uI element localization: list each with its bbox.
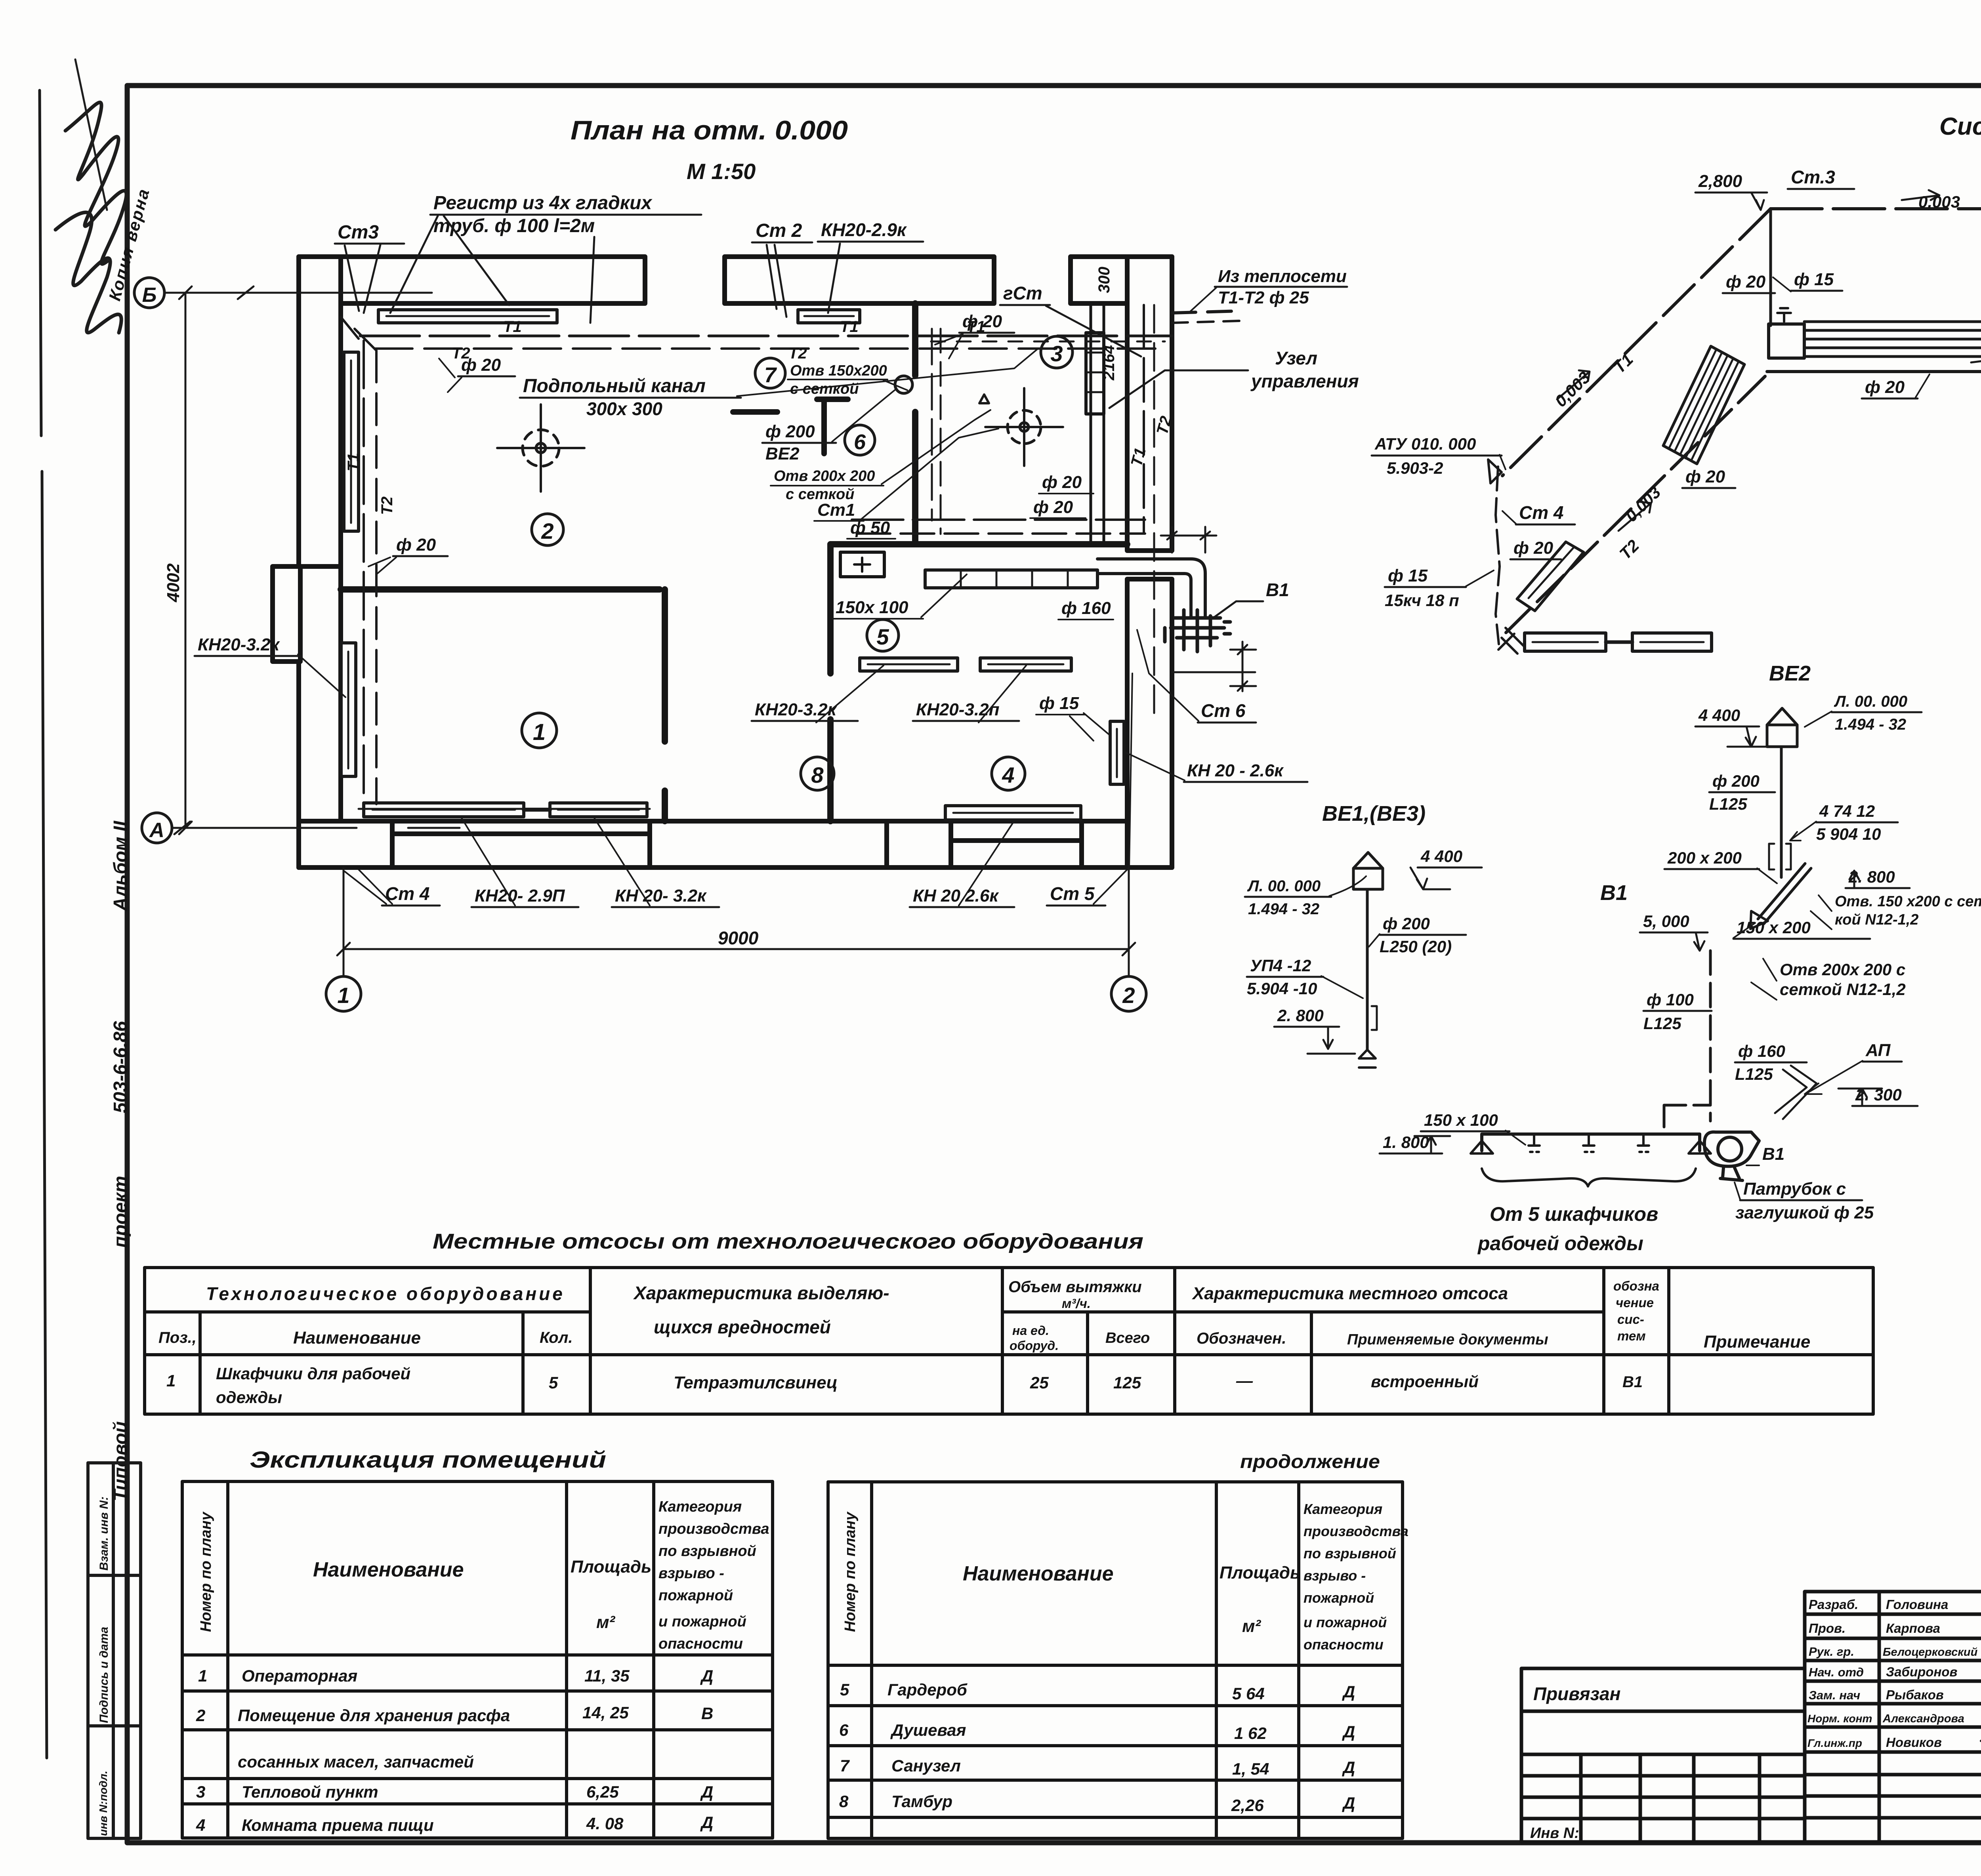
svg-text:Комната приема пищи: Комната приема пищи [242,1816,434,1834]
svg-text:Д: Д [700,1783,713,1801]
exterior wall left band [273,257,341,867]
svg-text:Д: Д [1342,1794,1355,1812]
svg-text:Площадь: Площадь [1220,1563,1300,1582]
svg-text:4 400: 4 400 [1420,847,1462,866]
radiator left wall upper [344,352,359,531]
svg-text:5 904 10: 5 904 10 [1816,825,1881,843]
svg-text:Наименование: Наименование [293,1328,421,1348]
VE2 duct riser [1780,747,1783,877]
svg-text:Тепловой пункт: Тепловой пункт [242,1783,378,1801]
svg-text:—: — [1236,1371,1253,1390]
radiator room5 b [980,658,1071,671]
svg-text:6: 6 [854,430,866,454]
radiator room3 vertical [1110,721,1124,784]
svg-text:ВЕ2: ВЕ2 [765,444,800,463]
pipe T2 main horizontal [375,347,1161,350]
svg-text:и пожарной: и пожарной [1303,1614,1387,1630]
svg-text:2: 2 [196,1706,205,1725]
svg-text:Новиков: Новиков [1886,1735,1942,1750]
svg-text:опасности: опасности [658,1636,743,1652]
horizontal dim line 9000 [337,943,1135,955]
svg-text:тем: тем [1617,1329,1646,1343]
svg-text:Местные отсосы от технологи: Местные отсосы от технологического обору… [433,1230,1143,1253]
svg-text:Л. 00. 000: Л. 00. 000 [1247,877,1321,895]
svg-text:ф 15: ф 15 [1388,566,1428,585]
V1 brace under duct [1482,1169,1696,1186]
svg-text:Наименование: Наименование [963,1562,1114,1585]
svg-text:Гл.инж.пр: Гл.инж.пр [1807,1737,1862,1749]
slope arrow 0.003 T2 [1971,353,1981,362]
flag symbol ATU [1488,459,1502,483]
svg-text:1.494 - 32: 1.494 - 32 [1835,716,1906,733]
svg-text:1: 1 [166,1371,176,1390]
svg-text:Наименование: Наименование [313,1558,464,1581]
wc partition stub [733,409,777,415]
svg-text:Экспликация помещений: Экспликация помещений [250,1447,606,1473]
svg-text:150х 100: 150х 100 [836,598,908,617]
privyazan table [1521,1668,1805,1842]
svg-text:300: 300 [1095,267,1113,293]
svg-text:Нач. отд: Нач. отд [1809,1665,1864,1679]
svg-text:503-6-6.86: 503-6-6.86 [110,1021,131,1113]
svg-text:взрыво -: взрыво - [1303,1567,1366,1584]
svg-text:2. 800: 2. 800 [1848,867,1895,886]
svg-text:Инв N:: Инв N: [1530,1825,1579,1842]
svg-text:От 5 шкафчиков: От 5 шкафчиков [1490,1203,1658,1225]
svg-text:Т1: Т1 [967,318,985,336]
svg-text:КН20-3.2п: КН20-3.2п [916,700,1000,719]
V1 fan scroll symbol [1704,1132,1759,1180]
left bottom corner marks [1498,628,1523,654]
svg-text:8: 8 [811,763,824,787]
svg-text:Рук. гр.: Рук. гр. [1809,1645,1854,1659]
exterior wall bottom band [299,821,1172,867]
svg-text:опасности: опасности [1303,1636,1384,1653]
svg-text:М 1:50: М 1:50 [687,159,756,184]
pipe riser T2 left [375,351,378,804]
svg-text:1.494 - 32: 1.494 - 32 [1248,900,1319,918]
svg-text:пожарной: пожарной [1303,1590,1374,1606]
svg-text:6,25: 6,25 [586,1783,619,1801]
svg-text:КН20- 2.9П: КН20- 2.9П [475,886,565,906]
left margin stamp boxes [88,1463,141,1838]
svg-text:продолжение: продолжение [1240,1451,1380,1472]
svg-text:Т1: Т1 [503,318,522,336]
svg-text:Рыбаков: Рыбаков [1886,1687,1944,1702]
svg-text:производства: производства [658,1521,769,1537]
radiator top room7 [798,310,860,323]
V1 duct hangers [1471,1134,1711,1153]
VE1 bottom diffuser [1359,1050,1376,1068]
slope arrow lower diagonal [1618,502,1651,531]
svg-text:оборуд.: оборуд. [1010,1338,1059,1353]
svg-text:4002: 4002 [164,563,183,602]
bottom radiators pair [1525,633,1606,651]
axis circle 1 [326,976,361,1011]
svg-text:по взрывной: по взрывной [658,1543,756,1560]
svg-text:производства: производства [1303,1523,1408,1539]
svg-text:КН 20- 3.2к: КН 20- 3.2к [615,886,707,906]
svg-text:14, 25: 14, 25 [582,1703,629,1722]
vertical dim line 4002 [179,286,192,834]
radiator left wall lower [341,643,356,776]
svg-text:Гардероб: Гардероб [887,1680,968,1699]
V1 horizontal duct to fan [1664,1105,1710,1134]
svg-text:м²: м² [1242,1617,1262,1636]
valve on register [1777,308,1791,322]
ventilation duct 150x100 room5 [925,570,1097,588]
svg-text:ф 200: ф 200 [765,422,815,441]
svg-text:ф 20: ф 20 [1042,473,1082,492]
wc tee pier [817,399,848,454]
svg-text:2: 2 [1122,983,1135,1008]
svg-text:2164: 2164 [1100,345,1118,381]
room number 6 [845,425,875,455]
radiator bottom room1 a [364,803,524,817]
pipe riser T1 left [363,341,365,808]
svg-text:В: В [701,1704,713,1723]
axis 2 leader [1128,867,1130,976]
T1 left diagonal [1502,209,1771,476]
svg-text:Б: Б [142,284,157,307]
svg-text:и пожарной: и пожарной [658,1613,746,1630]
interior wall room5 left [827,544,834,821]
svg-text:Примечание: Примечание [1704,1332,1810,1352]
svg-text:4. 08: 4. 08 [586,1814,624,1833]
pipe chase wall room3 [1091,303,1104,544]
title block outer [1805,1592,1981,1842]
svg-text:Площадь: Площадь [571,1557,651,1577]
svg-text:L125: L125 [1709,795,1747,813]
pipe risers room3 left [931,329,933,520]
svg-text:В1: В1 [1622,1373,1643,1391]
svg-text:А: А [149,819,164,842]
svg-text:чение: чение [1616,1295,1654,1310]
VE2 roof vent symbol [1767,708,1797,747]
table outer box [145,1268,1873,1414]
svg-text:8: 8 [839,1792,849,1811]
svg-text:Альбом II: Альбом II [110,820,131,911]
svg-text:Ст 5: Ст 5 [1050,883,1095,904]
svg-text:1: 1 [198,1666,207,1685]
svg-text:5 64: 5 64 [1232,1684,1265,1703]
pipe risers room3 right [1143,305,1145,533]
V1 duct riser dashed [1709,951,1712,1121]
svg-text:АТУ 010. 000: АТУ 010. 000 [1374,435,1476,453]
exterior wall right band [1127,257,1172,867]
svg-text:ВЕ1,(ВЕ3): ВЕ1,(ВЕ3) [1322,802,1426,826]
svg-text:сис-: сис- [1617,1312,1644,1327]
svg-text:Из теплосети: Из теплосети [1218,267,1347,286]
shower box room6 [840,552,884,577]
svg-text:В1: В1 [1600,881,1628,905]
mid radiator slanted with hatch [1663,346,1744,464]
svg-text:Забиронов: Забиронов [1886,1664,1958,1679]
svg-text:4 400: 4 400 [1698,706,1740,724]
svg-text:5: 5 [876,624,889,649]
svg-text:Александрова: Александрова [1882,1712,1964,1725]
svg-text:с сеткой: с сеткой [790,381,859,397]
VE1 duct riser [1366,889,1369,1050]
svg-text:Д: Д [1342,1722,1355,1741]
svg-text:2: 2 [541,519,553,543]
radiator room4 bottom [945,806,1081,820]
svg-text:5, 000: 5, 000 [1643,912,1689,930]
svg-text:АП: АП [1865,1041,1891,1060]
slope arrow on diagonal [1557,370,1590,399]
svg-text:Т2: Т2 [378,496,396,515]
svg-text:Обозначен.: Обозначен. [1197,1330,1286,1347]
svg-text:2. 800: 2. 800 [1277,1006,1324,1025]
svg-text:ф 20: ф 20 [461,355,501,375]
svg-text:Подпись и дата: Подпись и дата [97,1627,111,1723]
svg-text:4 74 12: 4 74 12 [1819,802,1875,820]
svg-text:Технологическое оборудование: Технологическое оборудование [206,1283,565,1304]
svg-text:15кч 18 п: 15кч 18 п [1385,591,1459,610]
interior wall room1/8 divider [662,589,668,821]
svg-text:Ст3: Ст3 [338,222,379,243]
svg-text:встроенный: встроенный [1371,1372,1479,1391]
svg-text:Ст 2: Ст 2 [756,220,802,241]
exterior wall top band [299,257,1172,303]
room number 5 [867,620,899,651]
pipe T1 main [1771,207,1981,210]
svg-text:11, 35: 11, 35 [584,1666,630,1685]
underfloor channel dashes [931,341,1165,343]
V1 connection diagonal to fan [1775,1066,1817,1119]
axis circle 2 [1111,976,1146,1011]
svg-text:пожарной: пожарной [658,1587,733,1604]
svg-text:ф 160: ф 160 [1738,1042,1785,1060]
svg-text:2,26: 2,26 [1231,1796,1264,1815]
radiator bottom room1 b [550,803,647,817]
svg-text:Головина: Головина [1886,1597,1948,1612]
svg-text:ф 20: ф 20 [1726,272,1766,292]
room number 8 [801,757,834,790]
svg-text:ф 20: ф 20 [1865,377,1905,397]
svg-text:Норм. конт: Норм. конт [1807,1712,1872,1725]
left margin: copy stamp signature [55,59,126,333]
svg-text:25: 25 [1030,1373,1049,1392]
svg-text:Категория: Категория [1303,1501,1382,1517]
axis 1 leader [343,867,345,976]
svg-text:заглушкой ф 25: заглушкой ф 25 [1735,1203,1874,1222]
svg-text:КН20-3.2к: КН20-3.2к [198,635,281,654]
pipe bottom connection room1 [359,808,650,810]
room number 2 [532,514,563,545]
VE2 bracket symbols [1769,844,1791,869]
svg-text:сеткой N12-1,2: сеткой N12-1,2 [1780,980,1906,999]
svg-text:7: 7 [840,1756,850,1775]
svg-text:ф 20: ф 20 [396,535,436,555]
svg-text:200 х 200: 200 х 200 [1667,848,1742,867]
supply triangle room6 [979,395,989,403]
svg-text:Кол.: Кол. [540,1329,573,1346]
svg-text:обозна: обозна [1613,1279,1659,1293]
pipe inlet from heat network [1172,311,1240,313]
svg-text:Т2: Т2 [788,345,807,362]
svg-text:6: 6 [839,1721,849,1739]
svg-text:Отв 150х200: Отв 150х200 [790,362,887,379]
svg-text:взрыво -: взрыво - [658,1565,724,1582]
axis circle А [142,813,172,843]
svg-text:м³/ч.: м³/ч. [1062,1296,1091,1311]
svg-text:Белоцерковский: Белоцерковский [1883,1646,1978,1659]
svg-text:КН 20 2.6к: КН 20 2.6к [913,886,999,906]
room number 7 [755,358,785,388]
svg-text:План на отм. 0.000: План на отм. 0.000 [571,115,848,145]
svg-text:1, 54: 1, 54 [1232,1760,1269,1778]
svg-text:инв N:подл.: инв N:подл. [97,1771,109,1836]
svg-text:ф 160: ф 160 [1061,599,1111,618]
svg-text:проект: проект [110,1176,131,1248]
V1 horizontal collection duct [1482,1134,1700,1151]
signature table rows [1805,1614,1981,1818]
svg-text:Применяемые документы: Применяемые документы [1347,1331,1548,1348]
svg-text:Поз.,: Поз., [158,1329,197,1346]
svg-text:ф 50: ф 50 [850,518,890,538]
svg-text:ф 100: ф 100 [1647,990,1694,1009]
svg-text:КН20-3.2к: КН20-3.2к [755,700,838,719]
svg-text:Категория: Категория [658,1499,742,1515]
svg-text:Разраб.: Разраб. [1809,1597,1858,1612]
svg-text:5: 5 [840,1680,849,1699]
svg-text:рабочей одежды: рабочей одежды [1477,1232,1643,1254]
svg-text:ф 15: ф 15 [1794,270,1834,289]
svg-text:Подпольный канал: Подпольный канал [523,376,706,397]
svg-text:Д: Д [1342,1758,1355,1777]
svg-text:Привязан: Привязан [1533,1683,1620,1704]
svg-text:ф 200: ф 200 [1383,914,1430,933]
table vertical lines [200,1268,1669,1414]
svg-text:Пров.: Пров. [1809,1621,1845,1636]
pipe T2 main [1767,370,1981,373]
svg-text:2,800: 2,800 [1698,172,1742,191]
svg-text:Тамбур: Тамбур [891,1792,952,1811]
svg-text:L125: L125 [1643,1014,1681,1033]
room number 4 [992,757,1025,790]
svg-text:управления: управления [1250,371,1359,391]
svg-text:на ед.: на ед. [1012,1323,1049,1338]
duct elbow to fan B1 [1097,559,1205,618]
svg-text:Ст 4: Ст 4 [385,883,429,904]
svg-text:5.904 -10: 5.904 -10 [1247,979,1317,998]
radiator coupling room1 [524,808,550,812]
svg-text:Помещение для хранения расфа: Помещение для хранения расфа [238,1706,510,1725]
svg-text:Патрубок с: Патрубок с [1743,1179,1846,1199]
radiator register top-left [378,310,557,323]
svg-text:Т1-Т2 ф 25: Т1-Т2 ф 25 [1218,288,1309,307]
svg-text:Тетраэтилсвинец: Тетраэтилсвинец [674,1373,838,1392]
dim 840 at elbow [1161,527,1216,553]
svg-text:1: 1 [337,983,349,1008]
fan B1 assembly blob [1165,610,1230,652]
svg-text:7: 7 [764,363,777,387]
fan circle room7 [895,376,912,393]
svg-text:Взам. инв N:: Взам. инв N: [97,1497,111,1571]
svg-text:Л. 00. 000: Л. 00. 000 [1834,693,1907,710]
St4 riser wavy [1496,467,1500,644]
svg-text:0,003: 0,003 [1918,193,1960,211]
VE1 bracket symbol [1372,1006,1377,1030]
svg-text:КН 20 - 2.6к: КН 20 - 2.6к [1187,761,1284,780]
axis line А [172,822,460,834]
svg-text:Номер по плану: Номер по плану [198,1511,214,1632]
svg-text:Т1: Т1 [840,318,859,336]
svg-text:Д: Д [700,1813,713,1832]
svg-text:Шкафчики для рабочей: Шкафчики для рабочей [216,1364,410,1383]
svg-text:Душевая: Душевая [890,1721,966,1739]
dim 200 vertical right [1230,642,1256,691]
pipe T1 main horizontal [360,335,1172,337]
sheet outer left edge line [40,90,47,1758]
svg-text:Ст 4: Ст 4 [1519,502,1563,523]
svg-text:Регистр из 4х гладких: Регистр из 4х гладких [433,193,653,214]
svg-text:Операторная: Операторная [242,1666,357,1685]
svg-text:В1: В1 [1266,580,1289,600]
pipe corner elbow top-left [341,317,376,351]
svg-text:Объем вытяжки: Объем вытяжки [1008,1278,1142,1296]
svg-text:Узел: Узел [1275,348,1317,368]
small diagonal radiator St4 [1517,542,1584,611]
riser St3 [1769,209,1772,326]
pipe room5 T2 [857,532,1145,535]
svg-text:ф 20: ф 20 [1033,498,1073,517]
svg-text:м²: м² [596,1613,616,1632]
svg-text:Отв 200х 200: Отв 200х 200 [774,468,875,484]
svg-text:3: 3 [1050,341,1063,366]
svg-text:Характеристика местного отсо: Характеристика местного отсоса [1191,1284,1508,1303]
svg-text:Ст 6: Ст 6 [1201,700,1246,721]
svg-text:ф 200: ф 200 [1712,772,1760,790]
svg-text:5.903-2: 5.903-2 [1387,459,1443,477]
svg-text:гСт: гСт [1003,283,1042,303]
svg-text:ВЕ2: ВЕ2 [1769,662,1811,685]
VE2 slanted louvre [1758,864,1811,924]
svg-text:Номер по плану: Номер по плану [842,1511,859,1632]
axis circle Б [134,278,164,308]
VE1 roof vent symbol [1353,852,1383,889]
axis line Б [164,286,432,299]
svg-text:ф 20: ф 20 [1685,467,1725,486]
svg-text:КН20-2.9к: КН20-2.9к [821,219,907,240]
svg-text:ф 15: ф 15 [1039,694,1079,713]
svg-text:125: 125 [1113,1373,1141,1392]
svg-text:Д: Д [700,1666,713,1685]
radiator room5 a [860,658,958,671]
svg-text:Система отопления: Система отопления [1939,113,1981,140]
svg-text:Отв. 150 х200 с сет-: Отв. 150 х200 с сет- [1835,893,1981,910]
svg-text:УП4 -12: УП4 -12 [1250,956,1311,975]
svg-text:Карпова: Карпова [1886,1621,1940,1636]
svg-text:щихся вредностей: щихся вредностей [654,1317,831,1337]
table horizontal header lines [145,1310,1604,1314]
svg-text:3: 3 [196,1783,205,1801]
svg-text:4: 4 [1002,763,1014,787]
svg-text:Санузел: Санузел [891,1756,961,1775]
svg-text:Т1: Т1 [345,453,362,471]
room number 3 [1041,336,1073,368]
svg-text:L250 (20): L250 (20) [1380,937,1452,956]
svg-text:Д: Д [1342,1682,1355,1701]
register radiator 4 pipes [1769,324,1804,358]
slope arrow 0.003 T1 [1902,190,1939,200]
VE3 roof fan symbol [985,388,1063,466]
floor line right of plan for dim 200 [1172,671,1255,673]
svg-text:9000: 9000 [718,928,759,948]
control unit cabinet room3 [1086,333,1104,414]
interior wall room1/2 divider [341,586,660,593]
